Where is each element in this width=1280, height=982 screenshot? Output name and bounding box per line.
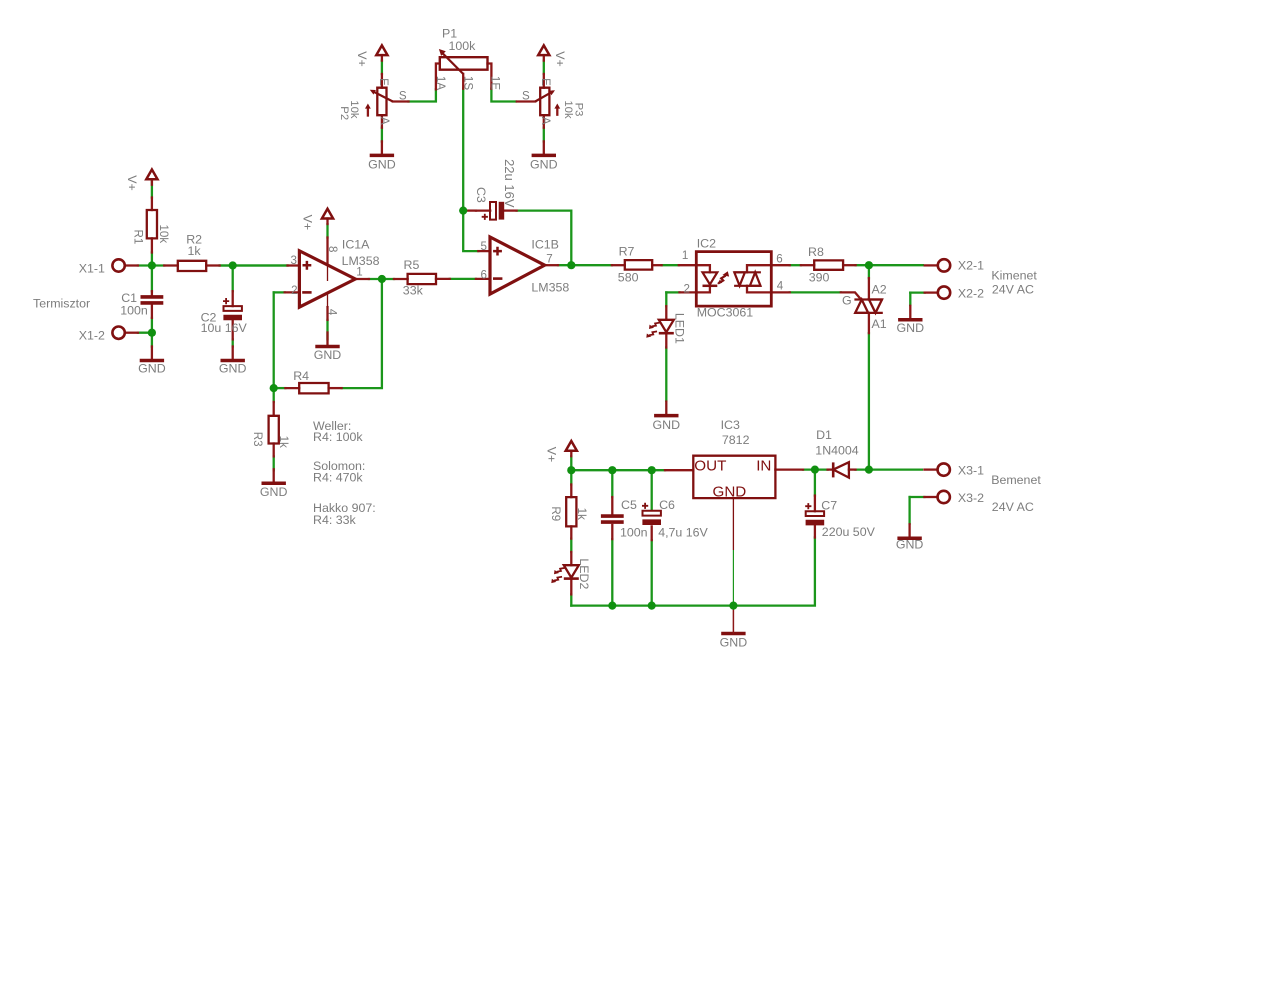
svg-text:R8: R8 <box>808 245 824 259</box>
svg-text:220u 50V: 220u 50V <box>822 525 876 539</box>
svg-text:E: E <box>539 78 552 86</box>
svg-text:OUT: OUT <box>694 457 726 474</box>
svg-text:A2: A2 <box>872 282 887 296</box>
svg-text:Kimenet: Kimenet <box>991 269 1037 283</box>
svg-text:R4: 33k: R4: 33k <box>313 513 357 527</box>
svg-text:LED2: LED2 <box>577 558 591 589</box>
svg-text:R1: R1 <box>132 229 145 244</box>
svg-text:A: A <box>378 117 391 125</box>
svg-text:GND: GND <box>713 483 747 500</box>
svg-text:C5: C5 <box>621 498 637 512</box>
svg-text:IC3: IC3 <box>721 418 740 432</box>
svg-text:1N4004: 1N4004 <box>815 444 859 458</box>
svg-text:X1-2: X1-2 <box>79 329 105 343</box>
svg-text:P2: P2 <box>338 106 350 120</box>
svg-text:C7: C7 <box>821 499 837 513</box>
svg-text:V+: V+ <box>301 215 315 231</box>
svg-text:GND: GND <box>368 158 396 172</box>
svg-text:7: 7 <box>546 252 552 265</box>
svg-text:S: S <box>399 90 407 103</box>
svg-text:5: 5 <box>480 240 486 253</box>
svg-text:GND: GND <box>530 158 558 172</box>
svg-text:1k: 1k <box>277 436 290 448</box>
svg-text:24V AC: 24V AC <box>992 282 1034 296</box>
svg-text:1S: 1S <box>462 76 475 90</box>
svg-text:X2-2: X2-2 <box>958 287 984 301</box>
svg-text:8: 8 <box>326 246 339 252</box>
svg-text:IC2: IC2 <box>697 236 716 250</box>
svg-text:4,7u 16V: 4,7u 16V <box>658 525 708 539</box>
svg-text:GND: GND <box>219 362 247 376</box>
svg-text:100n: 100n <box>120 304 148 318</box>
svg-text:GND: GND <box>138 362 166 376</box>
svg-text:X3-2: X3-2 <box>958 491 984 505</box>
svg-text:4: 4 <box>777 280 784 293</box>
svg-text:1E: 1E <box>489 76 502 90</box>
svg-text:X3-1: X3-1 <box>958 464 984 478</box>
svg-text:6: 6 <box>480 268 486 281</box>
svg-text:GND: GND <box>260 485 288 499</box>
svg-text:E: E <box>377 78 390 86</box>
svg-text:GND: GND <box>314 348 342 362</box>
svg-text:G: G <box>842 293 852 307</box>
svg-text:1A: 1A <box>434 76 447 90</box>
svg-text:V+: V+ <box>544 447 558 463</box>
svg-text:V+: V+ <box>553 51 567 67</box>
svg-text:A1: A1 <box>872 317 887 331</box>
svg-text:R9: R9 <box>549 506 562 521</box>
svg-text:3: 3 <box>291 254 297 267</box>
svg-text:1: 1 <box>356 265 362 278</box>
svg-text:X1-1: X1-1 <box>79 261 105 275</box>
svg-text:V+: V+ <box>355 51 369 67</box>
svg-text:IN: IN <box>756 457 771 474</box>
svg-text:22u 16V: 22u 16V <box>502 159 517 208</box>
svg-text:D1: D1 <box>816 428 832 442</box>
svg-text:S: S <box>522 90 530 103</box>
svg-text:V+: V+ <box>125 175 139 191</box>
svg-text:10k: 10k <box>157 224 170 243</box>
svg-text:IC1A: IC1A <box>342 237 370 251</box>
svg-text:4: 4 <box>326 309 339 316</box>
svg-text:R3: R3 <box>251 432 264 447</box>
svg-text:GND: GND <box>653 418 681 432</box>
svg-text:R5: R5 <box>404 258 420 272</box>
svg-text:P3: P3 <box>572 103 584 117</box>
svg-text:GND: GND <box>720 635 748 649</box>
svg-text:GND: GND <box>897 321 925 335</box>
svg-text:33k: 33k <box>403 284 424 298</box>
svg-text:24V AC: 24V AC <box>992 500 1034 514</box>
svg-text:R4: 100k: R4: 100k <box>313 430 363 444</box>
svg-text:R7: R7 <box>619 244 635 258</box>
svg-text:7812: 7812 <box>722 433 750 447</box>
svg-text:Bemenet: Bemenet <box>991 473 1041 487</box>
svg-text:C3: C3 <box>474 187 488 203</box>
svg-text:580: 580 <box>618 270 639 284</box>
svg-text:LM358: LM358 <box>531 281 569 295</box>
svg-text:2: 2 <box>684 282 690 295</box>
svg-text:10k: 10k <box>562 100 574 119</box>
svg-text:IC1B: IC1B <box>531 238 559 252</box>
svg-text:X2-1: X2-1 <box>958 259 984 273</box>
svg-text:100n: 100n <box>620 525 648 539</box>
svg-text:10u 16V: 10u 16V <box>201 321 248 335</box>
svg-text:LED1: LED1 <box>673 313 687 344</box>
svg-text:1k: 1k <box>188 244 202 258</box>
svg-text:390: 390 <box>809 271 830 285</box>
svg-text:MOC3061: MOC3061 <box>697 306 754 320</box>
svg-text:R4: 470k: R4: 470k <box>313 471 363 485</box>
svg-text:2: 2 <box>291 284 297 297</box>
svg-text:6: 6 <box>776 253 782 266</box>
svg-text:1: 1 <box>682 249 688 262</box>
svg-text:GND: GND <box>896 538 924 552</box>
svg-text:C6: C6 <box>659 498 675 512</box>
svg-text:Termisztor: Termisztor <box>33 297 90 311</box>
svg-text:1k: 1k <box>575 508 588 520</box>
svg-text:R4: R4 <box>293 369 309 383</box>
svg-text:A: A <box>539 117 552 125</box>
svg-text:100k: 100k <box>449 39 477 53</box>
